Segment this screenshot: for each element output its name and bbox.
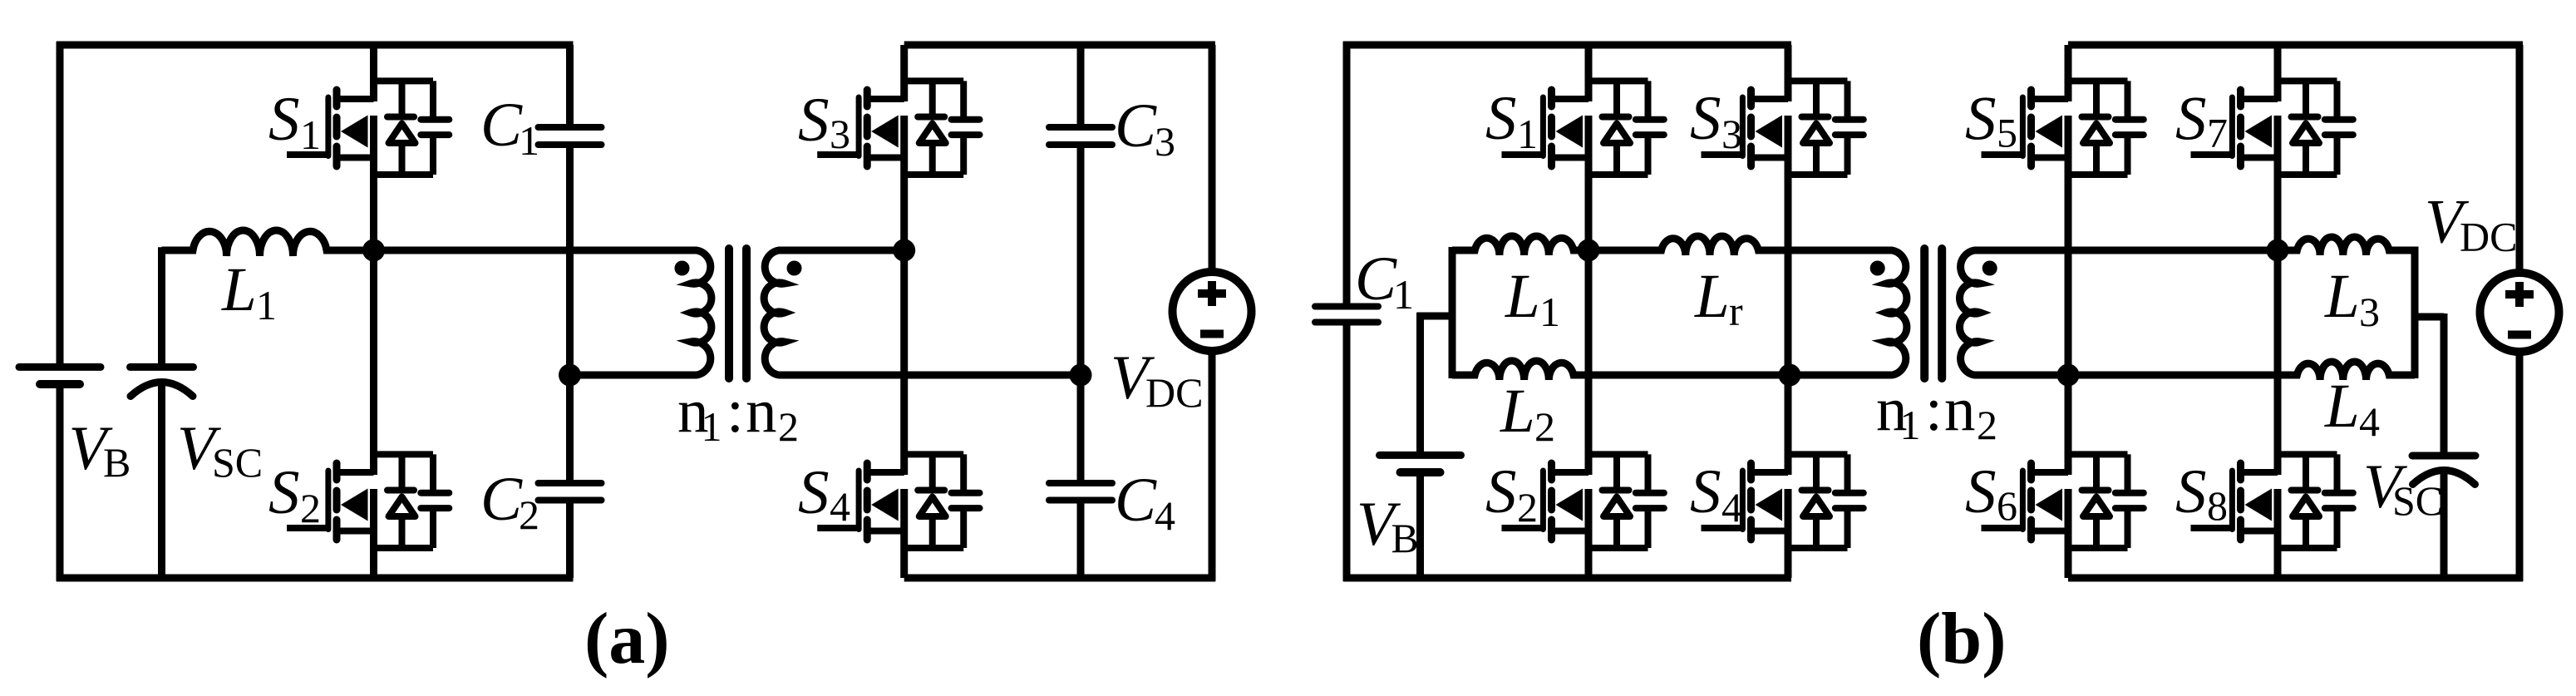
svg-text:S: S xyxy=(798,86,830,155)
node: S1-S2 midpoint (b) joins L1/Lr xyxy=(1578,239,1600,262)
svg-text:3: 3 xyxy=(1155,118,1175,165)
wire: L3/L4 junction to V_SC branch (b) xyxy=(2411,313,2444,321)
wire: top rail right bridge (b) xyxy=(2068,42,2523,49)
inductor L3 (b) xyxy=(2278,237,2415,378)
transformer T (b): core xyxy=(1924,249,1942,378)
label V_SC (b) xyxy=(2363,452,2443,524)
svg-text:6: 6 xyxy=(1997,482,2017,529)
svg-text:4: 4 xyxy=(1155,492,1175,539)
svg-text:S: S xyxy=(1965,457,1997,526)
label S8 xyxy=(2175,457,2228,529)
transformer T (b): polarity dot secondary xyxy=(1982,261,1997,276)
node: S5-S6 midpoint joins transformer secondary bottom (b) xyxy=(2057,364,2080,387)
supercapacitor V_SC(a) xyxy=(131,367,194,396)
svg-text:5: 5 xyxy=(1997,110,2017,156)
wire: left outer conductor (b) lower xyxy=(1343,323,1351,582)
label L3 xyxy=(2324,262,2380,335)
svg-text:2: 2 xyxy=(1977,402,1997,448)
wire: right outer conductor (b) upper xyxy=(2516,45,2524,273)
svg-text:1: 1 xyxy=(1900,402,1921,448)
label S4 xyxy=(798,458,850,530)
wire: bridge leg at x=2488 (S5/S6 leg (b)) xyxy=(2065,45,2072,578)
svg-text:C: C xyxy=(1115,466,1157,535)
wire: bottom rail right bridge (a) xyxy=(904,575,1215,582)
wire: right outer conductor (b) lower xyxy=(2516,352,2524,581)
label L1 (a) xyxy=(221,255,277,328)
svg-text:SC: SC xyxy=(2392,477,2443,524)
svg-text:2: 2 xyxy=(778,403,799,450)
label C1 xyxy=(480,91,539,164)
label S5 xyxy=(1965,85,2017,156)
wire: L1/L2 parallel loop left side (b) xyxy=(1449,247,1456,378)
svg-text:1: 1 xyxy=(1517,111,1538,157)
svg-text:7: 7 xyxy=(2207,110,2228,156)
svg-text:B: B xyxy=(103,439,131,486)
capacitor C1 xyxy=(539,127,602,145)
label V_B (b) xyxy=(1357,490,1419,561)
transformer T (b): secondary winding xyxy=(1959,250,2278,375)
transformer T (a): primary winding with top lead from S1/S2 node xyxy=(374,250,712,375)
svg-text:1: 1 xyxy=(519,117,539,164)
wire: bridge leg at x=1087.7 (S3/S4 leg (a)) xyxy=(900,45,908,578)
wire: bridge leg at x=1911 (S1/S2 leg (b)) xyxy=(1585,45,1593,578)
inductor L1 (b) xyxy=(1452,236,1588,255)
transformer T (b): polarity dot primary xyxy=(1870,261,1885,276)
svg-text:S: S xyxy=(1690,84,1721,153)
label S2 xyxy=(268,458,321,531)
label L4 xyxy=(2324,372,2380,445)
svg-text:C: C xyxy=(480,91,523,160)
svg-text:4: 4 xyxy=(2359,398,2380,445)
wire: V_SC branch vertical (b) xyxy=(2441,313,2448,581)
svg-text:L: L xyxy=(1505,262,1540,331)
svg-text:S: S xyxy=(268,85,300,154)
transformer T (b): primary winding xyxy=(1790,250,1907,375)
label V_SC (a) xyxy=(177,414,263,486)
svg-text:L: L xyxy=(1694,262,1730,331)
wire: bottom rail left bridge (a) xyxy=(57,575,574,582)
svg-text:S: S xyxy=(1485,84,1517,153)
wire: top rail right bridge (a) xyxy=(904,42,1215,49)
svg-text:C: C xyxy=(480,465,523,534)
wire: bridge leg at x=449.5 (S1/S2 leg (a)) xyxy=(370,45,377,578)
node: C3-C4 midpoint joins transformer secondary bottom, V_DC net (a) xyxy=(1070,364,1092,387)
svg-text:L: L xyxy=(1500,377,1535,446)
label S4 (b) xyxy=(1690,457,1742,531)
svg-text:C: C xyxy=(1115,91,1157,160)
label Lr (b) xyxy=(1694,262,1743,334)
label S6 xyxy=(1965,457,2017,529)
svg-text:S: S xyxy=(1485,457,1517,526)
transistor S4b (MOSFET with body diode and snubber capacitor) xyxy=(1702,454,1864,548)
svg-text:2: 2 xyxy=(300,485,321,531)
wire: left outer conductor (b) upper xyxy=(1343,42,1351,307)
transformer T (a): polarity dot primary xyxy=(675,261,690,276)
wire: top rail left bridge (b) xyxy=(1343,42,1791,49)
battery V_B(a) xyxy=(19,367,101,384)
transistor S2b (MOSFET with body diode and snubber capacitor) xyxy=(1502,454,1664,548)
label L2 (b) xyxy=(1500,377,1555,450)
label V_DC (b) xyxy=(2425,188,2517,260)
capacitor C1 (b) xyxy=(1315,307,1378,323)
wire: capacitor leg at x=1300 (C3/C4 leg (a)) xyxy=(1077,45,1085,578)
svg-text:n: n xyxy=(1944,375,1976,444)
svg-text:SC: SC xyxy=(212,439,263,486)
svg-text:DC: DC xyxy=(2460,214,2517,260)
capacitor C3 xyxy=(1049,127,1112,145)
inductor Lr (b) xyxy=(1588,236,1885,255)
wire: bottom rail left bridge (b) xyxy=(1343,575,1791,582)
label S1 xyxy=(268,85,321,158)
svg-text:DC: DC xyxy=(1145,369,1203,416)
wire: left outer conductor (a) upper xyxy=(57,42,64,367)
wire: right outer conductor (a) lower xyxy=(1209,351,1216,581)
label C3 xyxy=(1115,91,1175,165)
wire: right outer conductor (a) upper xyxy=(1209,45,1216,272)
svg-text:2: 2 xyxy=(1517,484,1538,531)
label V_B (a) xyxy=(69,414,131,486)
svg-text:1: 1 xyxy=(256,282,277,328)
svg-text:1: 1 xyxy=(702,403,722,450)
svg-text:L: L xyxy=(2324,372,2360,441)
svg-text:S: S xyxy=(2175,85,2207,154)
inductor L1 (a) xyxy=(162,230,374,256)
wire: left outer conductor (a) lower xyxy=(57,384,64,581)
svg-text:1: 1 xyxy=(1393,271,1414,318)
wire: top rail left bridge (a) xyxy=(57,42,574,49)
svg-text:(b): (b) xyxy=(1917,599,2007,679)
label S3 xyxy=(798,86,850,157)
label L1 (b) xyxy=(1505,262,1560,335)
transistor S3 (MOSFET with body diode and snubber capacitor) xyxy=(817,81,979,175)
inductor L4 (b) xyxy=(2068,362,2415,380)
wire: bridge leg at x=2151 (S3/S4 leg (b)) xyxy=(1785,45,1792,578)
label S2 (b) xyxy=(1485,457,1538,531)
wire: bridge leg at x=2740 (S7/S8 leg (b)) xyxy=(2274,45,2282,578)
transformer T (a): secondary winding with leads to right bridge xyxy=(764,250,1081,375)
label S1 (b) xyxy=(1485,84,1538,157)
svg-text::: : xyxy=(727,377,744,446)
node: C1-C2 midpoint joins transformer primary bottom (a) xyxy=(559,364,581,387)
label V_DC (a) xyxy=(1111,343,1203,416)
label C1 (b) xyxy=(1355,244,1414,318)
svg-text:L: L xyxy=(2324,262,2360,331)
transistor S2 (MOSFET with body diode and snubber capacitor) xyxy=(287,454,449,548)
supercapacitor V_SC (b) xyxy=(2412,456,2475,485)
transformer T (a): polarity dot secondary xyxy=(787,261,802,276)
battery V_B(b) xyxy=(1380,455,1461,472)
svg-text:3: 3 xyxy=(1721,111,1742,157)
capacitor C4 xyxy=(1049,483,1112,501)
transistor S1 (MOSFET with body diode and snubber capacitor) xyxy=(287,81,449,175)
svg-text:3: 3 xyxy=(830,111,850,157)
svg-text:S: S xyxy=(1965,85,1997,154)
svg-text:1: 1 xyxy=(1539,289,1560,335)
label C2 xyxy=(480,465,539,538)
svg-text:1: 1 xyxy=(300,111,321,158)
transformer T (a): core xyxy=(729,249,746,378)
svg-text::: : xyxy=(1925,375,1943,444)
svg-text:r: r xyxy=(1729,288,1743,334)
wire: capacitor leg at x=685.5 (C1/C2 leg (a)) xyxy=(566,45,574,578)
svg-text:4: 4 xyxy=(1721,484,1742,531)
svg-text:S: S xyxy=(1690,457,1721,526)
svg-text:S: S xyxy=(268,458,300,527)
transistor S4 (MOSFET with body diode and snubber capacitor) xyxy=(817,454,979,548)
wire: bottom rail right bridge (b) xyxy=(2068,575,2523,582)
label C4 xyxy=(1115,466,1175,539)
svg-text:n: n xyxy=(746,377,777,446)
label S7 xyxy=(2175,85,2228,156)
transistor S5 (MOSFET with body diode and snubber capacitor) xyxy=(1982,81,2144,175)
label S3 (b) xyxy=(1690,84,1742,157)
svg-text:S: S xyxy=(2175,457,2207,526)
svg-text:8: 8 xyxy=(2207,482,2228,529)
capacitor C2 xyxy=(539,483,602,501)
wire: V_SC branch vertical (a) xyxy=(158,247,165,367)
wire: battery branch (b) xyxy=(1417,313,1453,581)
svg-text:C: C xyxy=(1355,244,1397,313)
transistor S8 (MOSFET with body diode and snubber capacitor) xyxy=(2191,454,2353,548)
node: S7-S8 midpoint joins transformer secondary top / L3 (b) xyxy=(2267,239,2289,262)
node: S3-S4 midpoint joins transformer secondary top (a) xyxy=(893,239,915,262)
DC source V_DC source (a) xyxy=(1173,272,1252,351)
transistor S3b (MOSFET with body diode and snubber capacitor) xyxy=(1702,81,1864,175)
transistor S6 (MOSFET with body diode and snubber capacitor) xyxy=(1982,454,2144,548)
transistor S7 (MOSFET with body diode and snubber capacitor) xyxy=(2191,81,2353,175)
svg-text:2: 2 xyxy=(519,491,539,538)
svg-text:S: S xyxy=(798,458,830,527)
svg-text:4: 4 xyxy=(830,483,850,530)
inductor L2 (b) xyxy=(1452,361,1790,380)
svg-text:L: L xyxy=(221,255,257,324)
node: S1-S2 midpoint joins L1 and transformer primary (a) xyxy=(362,239,385,262)
transistor S1b (MOSFET with body diode and snubber capacitor) xyxy=(1502,81,1664,175)
svg-text:3: 3 xyxy=(2359,289,2380,335)
DC source V_DC source (b) xyxy=(2480,273,2559,352)
svg-text:2: 2 xyxy=(1534,403,1555,450)
svg-text:B: B xyxy=(1391,515,1419,561)
svg-text:(a): (a) xyxy=(584,599,670,679)
node: S3-S4 midpoint (b) joins L2/transformer primary bottom xyxy=(1779,364,1801,387)
